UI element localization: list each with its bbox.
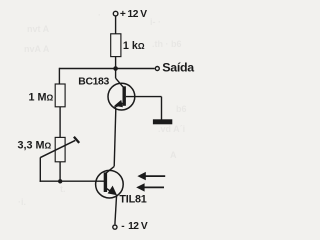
terminal +12V [113, 11, 118, 16]
wire Q2 emitter to -12V terminal [115, 195, 117, 225]
transistor Q1 BC183 [108, 83, 135, 110]
node A junction dot [113, 66, 118, 71]
svg-text:1 kΩ: 1 kΩ [123, 40, 145, 52]
label Q2 TIL81 [119, 194, 146, 206]
svg-text:3,3 MΩ: 3,3 MΩ [18, 140, 52, 152]
svg-text:1 MΩ: 1 MΩ [29, 91, 54, 103]
label -12V [121, 221, 148, 232]
wire node A horizontal rail to output [59, 68, 154, 70]
svg-text:nvt A: nvt A [27, 24, 50, 34]
resistor R1 1k [111, 34, 121, 57]
svg-text:nvA A: nvA A [24, 44, 50, 54]
label P1 value 3,3 MOhm [18, 140, 52, 152]
svg-text:·: · [98, 10, 101, 20]
svg-text:BC183: BC183 [78, 77, 109, 88]
wire P1 wiper down [39, 157, 41, 182]
wire R1 to node A [115, 57, 117, 69]
svg-text:.th · b6: .th · b6 [152, 39, 182, 49]
wire R2 to P1 [59, 107, 61, 138]
wire rail to R2 top [58, 68, 60, 84]
terminal Saida output [155, 67, 159, 71]
svg-text:A: A [170, 150, 177, 160]
wire node A to Q1 collector [116, 69, 124, 88]
node B junction dot [58, 179, 62, 183]
svg-text:Saída: Saída [162, 61, 194, 75]
wire +12V to R1 [115, 16, 117, 34]
background paper [0, 0, 213, 238]
wire P1 bottom to node B [59, 162, 61, 181]
ground [153, 119, 172, 124]
svg-text:.vd A´i: .vd A´i [158, 124, 185, 134]
resistor R2 1M [55, 84, 65, 107]
light arrows into Q2 [136, 172, 165, 192]
label Saida [162, 61, 194, 75]
svg-text:t.: t. [60, 184, 66, 194]
svg-text:b6: b6 [176, 104, 187, 114]
transistor Q2 TIL81 phototransistor [96, 166, 124, 198]
wire Q1 base to ground [126, 97, 162, 120]
label +12V [120, 9, 147, 20]
trimpot P1 wiper arm with T-bar [40, 137, 79, 158]
background paper texture (decorative, not labelled individually) [18, 10, 187, 207]
svg-text:TIL81: TIL81 [119, 194, 146, 206]
label R2 value 1 MOhm [29, 91, 54, 103]
terminal -12V [113, 225, 117, 229]
trimpot P1 3.3M body [55, 137, 65, 161]
label Q1 BC183 [78, 77, 109, 88]
svg-text:i- ·: i- · [150, 17, 161, 27]
label R1 value 1 kOhm [123, 40, 145, 52]
svg-text:+12 V: +12 V [120, 9, 147, 20]
svg-text:·i.: ·i. [18, 197, 26, 207]
wire Q1 emitter to Q2 collector [114, 110, 116, 167]
wire bottom rail to Q2 base [40, 180, 104, 182]
